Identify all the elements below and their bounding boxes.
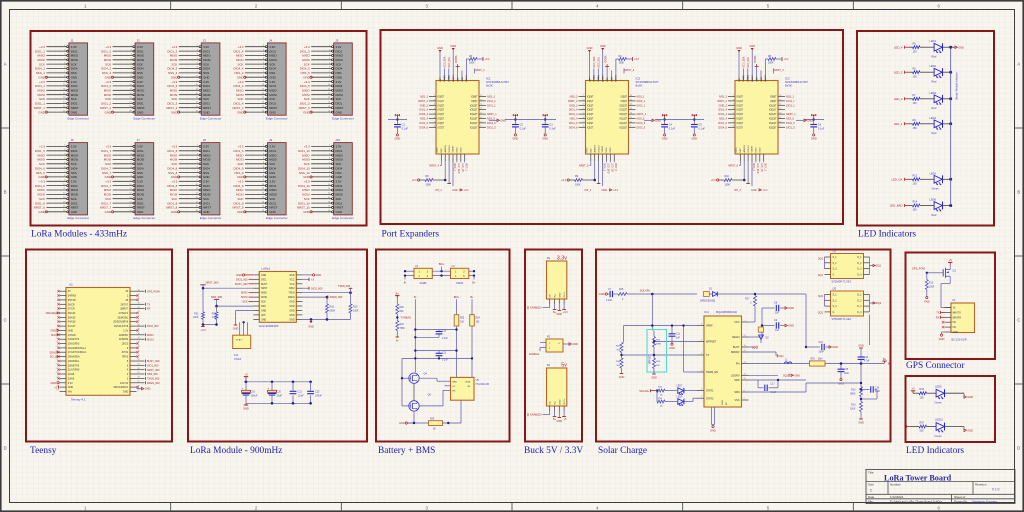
svg-text:SCK: SCK [71, 97, 77, 101]
svg-text:GND: GND [71, 210, 77, 214]
svg-text:SCK: SCK [269, 97, 275, 101]
svg-text:B+: B+ [888, 363, 892, 366]
svg-text:DIO4: DIO4 [203, 184, 210, 188]
svg-text:SCK: SCK [203, 162, 209, 166]
svg-text:C17: C17 [771, 383, 776, 385]
svg-text:VCC: VCC [734, 321, 739, 324]
svg-text:NINT: NINT [591, 147, 593, 153]
svg-text:500K: 500K [330, 309, 336, 312]
svg-text:3.3V: 3.3V [137, 45, 143, 49]
svg-text:MISO: MISO [38, 153, 46, 157]
svg-text:NRST: NRST [137, 206, 145, 210]
svg-text:B+: B+ [472, 280, 476, 284]
svg-text:SQ1: SQ1 [783, 374, 789, 377]
svg-text:9: 9 [779, 126, 780, 128]
svg-text:150: 150 [913, 50, 918, 53]
svg-text:NRST: NRST [203, 206, 211, 210]
svg-text:35/TX8: 35/TX8 [68, 299, 76, 302]
svg-text:GND: GND [559, 292, 561, 297]
svg-text:56K: 56K [656, 365, 660, 367]
svg-text:+3.3: +3.3 [105, 145, 111, 149]
svg-text:8x3K: 8x3K [486, 84, 493, 88]
svg-text:IO[1]T: IO[1]T [587, 101, 594, 103]
svg-text:8: 8 [583, 126, 584, 128]
svg-text:27/SCK1: 27/SCK1 [119, 312, 129, 315]
svg-text:GND: GND [71, 175, 77, 179]
svg-text:GND: GND [137, 110, 143, 114]
svg-text:MKXRX: MKXRX [953, 316, 962, 319]
svg-text:100K: 100K [193, 317, 199, 319]
svg-text:GND: GND [736, 46, 742, 50]
svg-text:16: 16 [779, 95, 781, 97]
svg-text:TX: TX [706, 354, 710, 357]
svg-text:IO[0]T: IO[0]T [438, 97, 445, 99]
svg-text:4.7uF: 4.7uF [864, 361, 870, 363]
svg-text:GND: GND [958, 45, 964, 49]
svg-text:22/A8: 22/A8 [68, 373, 75, 376]
svg-text:GND: GND [237, 210, 243, 214]
svg-text:SCK: SCK [39, 97, 45, 101]
svg-text:J8: J8 [203, 138, 207, 142]
svg-text:DIO1_5: DIO1_5 [786, 126, 795, 129]
svg-text:8: 8 [733, 126, 734, 128]
svg-text:NSS_900: NSS_900 [147, 373, 158, 376]
svg-text:IOD2: IOD2 [610, 147, 612, 153]
svg-text:GND: GND [669, 346, 675, 350]
svg-text:SDA1: SDA1 [49, 351, 56, 354]
svg-text:S_2: S_2 [833, 263, 838, 265]
svg-text:DIO4_5: DIO4_5 [637, 122, 646, 125]
svg-text:NRST_5: NRST_5 [579, 165, 589, 168]
svg-text:DIO8A: DIO8A [754, 55, 757, 62]
svg-text:DQ1: DQ1 [876, 265, 882, 268]
svg-text:GND: GND [105, 210, 111, 214]
svg-text:GND: GND [437, 46, 443, 50]
svg-text:LED_3: LED_3 [894, 70, 903, 74]
svg-text:C18: C18 [844, 369, 849, 371]
svg-text:Battery + BMS: Battery + BMS [378, 446, 435, 456]
svg-text:150: 150 [913, 127, 918, 130]
svg-text:OSC10: OSC10 [449, 145, 451, 153]
svg-text:SRN: SRN [734, 391, 739, 394]
svg-text:BM+: BM+ [439, 262, 445, 266]
svg-text:REGN: REGN [732, 336, 739, 339]
svg-text:MISO: MISO [38, 54, 46, 58]
svg-text:Binary Module Indicator: Binary Module Indicator [955, 72, 959, 99]
svg-text:1: 1 [434, 95, 435, 97]
svg-text:DIO4: DIO4 [137, 67, 144, 71]
svg-text:GND: GND [171, 110, 177, 114]
svg-text:B+: B+ [396, 291, 400, 295]
svg-text:R19: R19 [353, 306, 358, 309]
svg-text:LoRa Module - 900mHz: LoRa Module - 900mHz [190, 446, 282, 456]
svg-text:File: File [868, 500, 873, 504]
svg-text:DQ: DQ [752, 347, 756, 350]
svg-text:SCK: SCK [238, 162, 244, 166]
svg-text:2.2uF: 2.2uF [606, 299, 613, 302]
svg-text:LED_OK: LED_OK [461, 163, 463, 173]
svg-text:SCK: SCK [304, 197, 310, 201]
svg-text:DIO4_5: DIO4_5 [300, 84, 310, 88]
svg-text:IO[0]T: IO[0]T [737, 97, 744, 99]
svg-text:DIO7_3: DIO7_3 [764, 163, 766, 172]
svg-text:C16: C16 [864, 357, 869, 359]
svg-text:IO[14]T: IO[14]T [769, 123, 777, 125]
svg-text:100K: 100K [575, 183, 581, 186]
svg-text:IO[11]T: IO[11]T [620, 110, 628, 112]
svg-text:+3: +3 [911, 387, 915, 391]
svg-text:SCK: SCK [269, 162, 275, 166]
svg-text:+3.3: +3.3 [105, 45, 111, 49]
svg-text:37/CR: 37/CR [68, 308, 75, 311]
svg-text:12: 12 [744, 335, 746, 337]
svg-text:NRST: NRST [336, 206, 344, 210]
svg-text:MISO: MISO [137, 89, 145, 93]
svg-text:DIO4_8: DIO4_8 [167, 184, 177, 188]
svg-text:5: 5 [701, 370, 702, 372]
svg-text:DIO7_2: DIO7_2 [614, 163, 616, 172]
svg-text:0/RX1/MISO1: 0/RX1/MISO1 [113, 386, 128, 389]
svg-text:Date: Date [868, 495, 875, 499]
svg-text:MISO: MISO [269, 54, 277, 58]
svg-text:DIO1_4: DIO1_4 [569, 109, 578, 112]
svg-text:GND: GND [137, 175, 143, 179]
svg-text:D_3: D_3 [857, 306, 862, 308]
svg-text:100K: 100K [426, 183, 432, 186]
svg-text:13: 13 [480, 108, 482, 110]
svg-text:750K: 750K [400, 328, 406, 330]
svg-text:SI7504DP-T1-GE3: SI7504DP-T1-GE3 [832, 319, 852, 321]
svg-text:NSS_5: NSS_5 [637, 118, 646, 121]
svg-text:14: 14 [630, 104, 632, 106]
svg-text:GPS Connector: GPS Connector [906, 361, 965, 371]
svg-text:NINT: NINT [740, 147, 742, 153]
svg-text:0.1uF: 0.1uF [402, 128, 409, 131]
svg-text:MISO: MISO [236, 54, 244, 58]
svg-text:BUST: BUST [733, 346, 740, 349]
svg-text:MISO: MISO [336, 89, 344, 93]
svg-text:NRST: NRST [71, 206, 79, 210]
svg-text:NRST_1: NRST_1 [475, 69, 485, 72]
svg-text:DIO8A: DIO8A [605, 55, 608, 62]
svg-text:TVREAD: TVREAD [401, 316, 412, 320]
svg-text:NINT: NINT [441, 147, 443, 153]
svg-text:IO[9]T: IO[9]T [770, 101, 777, 103]
svg-text:NRST_1: NRST_1 [487, 113, 497, 116]
svg-text:IOD2: IOD2 [461, 147, 463, 153]
svg-text:+3.3: +3.3 [39, 145, 45, 149]
svg-text:INT_1: INT_1 [435, 189, 442, 192]
svg-text:25/SDA2/RX6: 25/SDA2/RX6 [113, 321, 129, 324]
svg-text:Red: Red [932, 55, 937, 59]
svg-text:3: 3 [733, 104, 734, 106]
svg-text:5v: 5v [561, 363, 567, 369]
svg-text:2N: 2N [467, 386, 470, 388]
svg-text:GND_2: GND_2 [420, 104, 429, 107]
svg-text:DIO4: DIO4 [269, 166, 276, 170]
svg-text:J2: J2 [137, 38, 141, 42]
svg-text:C19: C19 [875, 387, 880, 389]
svg-text:MISO: MISO [203, 153, 211, 157]
svg-text:Sheet of: Sheet of [954, 495, 965, 499]
svg-text:.22uF: .22uF [298, 395, 305, 398]
svg-text:Green: Green [935, 434, 943, 438]
svg-text:GND: GND [939, 337, 945, 341]
svg-text:DIO4: DIO4 [71, 84, 78, 88]
svg-text:0.1uF: 0.1uF [442, 360, 448, 362]
svg-text:SDA: SDA [760, 77, 763, 82]
svg-text:ADDR1: ADDR1 [593, 144, 596, 152]
svg-text:LED2: LED2 [930, 64, 937, 68]
svg-text:NRST_10: NRST_10 [297, 206, 310, 210]
svg-text:GRD: GRD [452, 381, 457, 383]
svg-text:GND: GND [953, 331, 959, 334]
svg-text:NRST_1: NRST_1 [34, 106, 45, 110]
svg-text:7: 7 [434, 121, 435, 123]
svg-text:DIO4: DIO4 [269, 84, 276, 88]
svg-text:0.1uF: 0.1uF [669, 128, 676, 131]
svg-text:6: 6 [583, 117, 584, 119]
svg-text:LED_OK: LED_OK [760, 163, 762, 173]
svg-text:R18: R18 [330, 306, 335, 309]
svg-text:IO[6]T: IO[6]T [737, 123, 744, 125]
svg-text:D_3: D_3 [857, 269, 862, 271]
svg-text:SCK: SCK [238, 62, 244, 66]
svg-text:IO[4]T: IO[4]T [587, 114, 594, 116]
svg-text:C21: C21 [298, 391, 303, 394]
svg-text:LoRa Modules - 433mHz: LoRa Modules - 433mHz [31, 230, 127, 240]
svg-text:E22-900M30S: E22-900M30S [259, 324, 278, 328]
svg-text:15/A1/RX3: 15/A1/RX3 [68, 343, 80, 346]
svg-text:J4: J4 [269, 38, 273, 42]
svg-text:J9: J9 [269, 138, 273, 142]
svg-text:I2C0_SCL: I2C0_SCL [449, 56, 451, 67]
svg-text:DIO7_1: DIO7_1 [465, 163, 467, 172]
svg-text:8x3K: 8x3K [636, 84, 643, 88]
svg-text:J6: J6 [70, 138, 74, 142]
svg-text:DIO4_7: DIO4_7 [101, 184, 111, 188]
svg-text:0.1uF: 0.1uF [549, 128, 556, 131]
svg-text:SDA: SDA [610, 77, 613, 82]
svg-text:8: 8 [434, 126, 435, 128]
svg-text:IO[1]T: IO[1]T [737, 101, 744, 103]
svg-text:GND: GND [600, 44, 606, 48]
svg-text:NRST_2: NRST_2 [568, 100, 578, 103]
svg-text:MOSI: MOSI [147, 338, 154, 341]
svg-text:+3.3: +3.3 [304, 145, 310, 149]
svg-text:J3: J3 [203, 38, 207, 42]
svg-text:DQ1: DQ1 [779, 355, 785, 358]
svg-text:TX: TX [147, 303, 151, 306]
svg-text:IO[8]T: IO[8]T [770, 97, 777, 99]
svg-text:MISO: MISO [71, 54, 79, 58]
svg-text:LED6: LED6 [930, 198, 937, 202]
svg-text:MISO: MISO [137, 188, 145, 192]
svg-text:LED_2: LED_2 [894, 97, 903, 101]
svg-text:Green: Green [935, 401, 943, 405]
svg-text:14: 14 [480, 104, 482, 106]
svg-text:DIO2: DIO2 [289, 288, 295, 290]
svg-text:MISO: MISO [170, 153, 178, 157]
svg-text:GND: GND [858, 345, 864, 348]
svg-text:+3.3: +3.3 [304, 45, 310, 49]
svg-text:LED4: LED4 [930, 116, 937, 120]
svg-text:28/RX7: 28/RX7 [120, 308, 129, 311]
svg-text:LED_OK: LED_OK [610, 163, 612, 173]
svg-text:499K: 499K [656, 343, 662, 345]
svg-text:LED1: LED1 [930, 39, 937, 43]
svg-text:Edge Connector: Edge Connector [67, 216, 89, 220]
svg-text:100K: 100K [353, 309, 359, 312]
svg-text:IOD1: IOD1 [756, 147, 758, 153]
svg-text:RXEN: RXEN [288, 297, 295, 299]
svg-text:IO[3]T: IO[3]T [587, 110, 594, 112]
svg-text:IOC1: IOC1 [587, 147, 589, 153]
svg-text:D_4: D_4 [857, 312, 862, 314]
svg-text:IOD2: IOD2 [760, 147, 762, 153]
svg-text:GND: GND [68, 386, 74, 389]
svg-text:S_1: S_1 [833, 257, 838, 259]
svg-text:SCK: SCK [171, 62, 177, 66]
svg-text:NSS_900: NSS_900 [211, 295, 223, 299]
svg-text:GPS_POW: GPS_POW [147, 290, 160, 293]
svg-text:GND: GND [171, 175, 177, 179]
svg-text:R20: R20 [400, 307, 405, 309]
svg-text:100K: 100K [768, 62, 774, 65]
svg-text:SCK: SCK [304, 62, 310, 66]
svg-text:1/12/2024: 1/12/2024 [890, 495, 904, 499]
svg-text:C: C [4, 318, 7, 323]
svg-text:ANT: ANT [261, 314, 266, 317]
svg-text:R17: R17 [745, 299, 750, 301]
svg-text:STAT2: STAT2 [706, 397, 714, 400]
svg-text:NSS_1: NSS_1 [487, 96, 496, 99]
svg-text:DIO1_6: DIO1_6 [569, 122, 578, 125]
svg-text:10: 10 [480, 121, 482, 123]
svg-text:NRST: NRST [336, 106, 344, 110]
svg-text:VSS: VSS [734, 399, 739, 402]
svg-text:IO[3]T: IO[3]T [438, 110, 445, 112]
svg-text:DIO4: DIO4 [336, 184, 343, 188]
svg-text:TERM_EN: TERM_EN [706, 371, 718, 374]
svg-text:IO[6]T: IO[6]T [587, 123, 594, 125]
svg-text:GND: GND [336, 110, 342, 114]
svg-text:MISO: MISO [336, 188, 344, 192]
svg-text:GND: GND [71, 75, 77, 79]
svg-text:Q1: Q1 [833, 249, 837, 253]
svg-text:+3.3: +3.3 [485, 58, 491, 61]
svg-text:SOLAR+: SOLAR+ [639, 389, 650, 393]
svg-text:150: 150 [920, 396, 925, 399]
svg-text:Number: Number [890, 483, 901, 487]
svg-text:GND: GND [450, 44, 456, 48]
svg-text:GQ1: GQ1 [818, 274, 824, 277]
svg-text:DIO4_10: DIO4_10 [298, 166, 310, 170]
svg-text:OC: OC [452, 386, 456, 388]
svg-text:GND: GND [269, 75, 275, 79]
svg-text:15: 15 [744, 373, 746, 375]
svg-text:0.1uF: 0.1uF [520, 128, 527, 131]
svg-text:DIO4_4: DIO4_4 [569, 113, 578, 116]
svg-text:NRST: NRST [137, 106, 145, 110]
svg-text:Red: Red [932, 106, 937, 110]
svg-text:14/A0/TX3: 14/A0/TX3 [68, 338, 80, 341]
svg-text:R24: R24 [476, 318, 481, 320]
svg-text:SCK: SCK [336, 62, 342, 66]
svg-text:D: D [1017, 446, 1020, 451]
svg-text:GND: GND [619, 376, 625, 379]
svg-text:EN: EN [550, 294, 552, 297]
svg-text:BUSY: BUSY [261, 284, 268, 286]
svg-text:MPPSET: MPPSET [706, 341, 717, 344]
svg-text:GND: GND [556, 419, 562, 423]
svg-text:IO[5]T: IO[5]T [438, 119, 445, 121]
svg-text:SCK: SCK [39, 162, 45, 166]
svg-text:A: A [1017, 62, 1020, 67]
svg-text:DIO4: DIO4 [269, 67, 276, 71]
svg-text:V 1.0: V 1.0 [992, 488, 1000, 492]
svg-text:SI7504DP-T1-GE3: SI7504DP-T1-GE3 [832, 282, 852, 284]
svg-text:SCK: SCK [105, 62, 111, 66]
svg-text:GND: GND [924, 299, 930, 303]
svg-text:NRST_6: NRST_6 [728, 165, 738, 168]
svg-text:Edge Connector: Edge Connector [134, 116, 156, 120]
svg-text:GND: GND [38, 210, 44, 214]
svg-text:IOC1: IOC1 [437, 147, 439, 153]
svg-text:DIO4: DIO4 [203, 84, 210, 88]
svg-text:Edge Connector: Edge Connector [67, 116, 89, 120]
svg-text:PH: PH [736, 363, 740, 366]
svg-text:NSS_2: NSS_2 [420, 96, 429, 99]
svg-text:100K: 100K [469, 62, 475, 65]
svg-text:IOD1: IOD1 [606, 147, 608, 153]
svg-text:10/CS: 10/CS [122, 343, 129, 346]
svg-text:IO[8]T: IO[8]T [471, 97, 478, 99]
svg-text:Teensy: Teensy [30, 446, 57, 456]
svg-text:38/A14: 38/A14 [68, 312, 76, 315]
svg-text:GND: GND [751, 189, 757, 192]
svg-text:100K: 100K [619, 62, 625, 65]
svg-text:MISO: MISO [38, 188, 46, 192]
svg-text:150: 150 [913, 102, 918, 105]
svg-text:15: 15 [480, 99, 482, 101]
svg-text:J1: J1 [70, 38, 74, 42]
svg-text:I2C0_SDA: I2C0_SDA [743, 56, 746, 67]
svg-text:6: 6 [701, 324, 702, 326]
svg-text:COAX: COAX [234, 357, 242, 361]
svg-text:NRST: NRST [71, 106, 79, 110]
svg-text:TXEN_900: TXEN_900 [147, 378, 160, 381]
svg-text:IO[10]T: IO[10]T [619, 105, 627, 107]
svg-text:LED3: LED3 [930, 91, 937, 95]
svg-text:SCK: SCK [203, 62, 209, 66]
svg-text:16/A2/RX4/SCL1: 16/A2/RX4/SCL1 [68, 347, 87, 350]
svg-text:C20: C20 [277, 391, 282, 394]
svg-text:IO[0]T: IO[0]T [587, 97, 594, 99]
svg-text:100K: 100K [929, 285, 935, 288]
svg-text:Red: Red [932, 213, 937, 217]
svg-text:2: 2 [733, 99, 734, 101]
svg-text:DIO4: DIO4 [137, 184, 144, 188]
svg-text:DIO4_2: DIO4_2 [101, 84, 111, 88]
svg-text:GND: GND [807, 118, 813, 122]
svg-text:GND: GND [602, 189, 608, 192]
svg-text:3.3V: 3.3V [336, 45, 342, 49]
svg-text:G: G [833, 275, 835, 277]
svg-text:IO[11]T: IO[11]T [769, 110, 777, 112]
svg-text:P1 AL**: P1 AL** [236, 339, 243, 342]
svg-text:GND: GND [269, 110, 275, 114]
